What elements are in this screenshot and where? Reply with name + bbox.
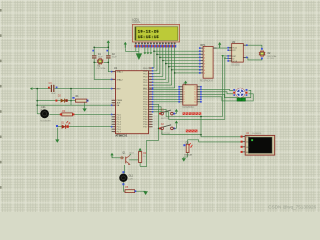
svg-text:1N4148: 1N4148 <box>184 154 192 156</box>
svg-text:10: 10 <box>194 102 196 104</box>
svg-text:SCLK: SCLK <box>232 61 237 63</box>
svg-text:19-12-25: 19-12-25 <box>138 30 160 34</box>
svg-text:BUTTON: BUTTON <box>161 133 170 135</box>
svg-text:0.0: 0.0 <box>238 99 243 102</box>
svg-text:XTAL2: XTAL2 <box>117 78 124 81</box>
svg-text:8: 8 <box>204 70 205 72</box>
svg-text:30pF: 30pF <box>112 57 117 59</box>
svg-text:LDR: LDR <box>129 178 134 180</box>
svg-text:CRYSTAL: CRYSTAL <box>96 67 106 70</box>
svg-text:2: 2 <box>204 51 205 53</box>
svg-text:X1?: X1? <box>232 50 235 52</box>
svg-text:3: 3 <box>204 54 205 56</box>
svg-text:7: 7 <box>204 67 205 69</box>
svg-text:BUTTON: BUTTON <box>161 118 170 120</box>
svg-text:15:15:15: 15:15:15 <box>138 36 160 40</box>
svg-text:1: 1 <box>204 48 205 50</box>
svg-text:DS18B20: DS18B20 <box>252 133 262 135</box>
svg-text:5: 5 <box>204 61 205 63</box>
svg-text:7: 7 <box>184 102 185 104</box>
svg-text:ULN2003A: ULN2003A <box>183 106 195 109</box>
svg-text:SOUNDER: SOUNDER <box>40 120 51 122</box>
svg-text:LS1: LS1 <box>41 107 46 109</box>
svg-text:32.768k: 32.768k <box>267 58 274 60</box>
svg-text:9: 9 <box>204 73 205 75</box>
svg-text:U1: U1 <box>114 66 118 70</box>
svg-text:4: 4 <box>204 57 205 59</box>
svg-text:LM016L: LM016L <box>132 21 141 24</box>
svg-text:DS1302: DS1302 <box>231 64 240 66</box>
svg-text:AT89C51: AT89C51 <box>115 134 128 138</box>
svg-text:XTAL1: XTAL1 <box>117 71 124 74</box>
svg-text:RESPACK-8: RESPACK-8 <box>200 79 214 82</box>
svg-text:10uF: 10uF <box>51 93 56 95</box>
svg-text:GL1: GL1 <box>129 175 134 177</box>
svg-text:GND: GND <box>246 147 251 149</box>
svg-text:6: 6 <box>204 64 205 66</box>
svg-text:CSDN @wq_75130926: CSDN @wq_75130926 <box>268 204 316 209</box>
